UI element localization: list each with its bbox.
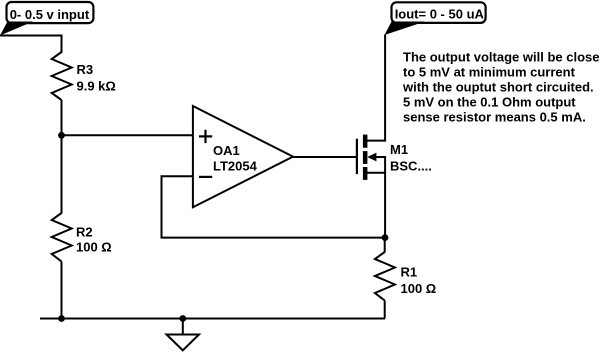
svg-text:9.9 kΩ: 9.9 kΩ xyxy=(77,78,116,93)
svg-text:0- 0.5 v input: 0- 0.5 v input xyxy=(10,7,90,22)
wire: input net horizontal xyxy=(0,35,62,37)
svg-text:BSC....: BSC.... xyxy=(390,158,432,173)
junction: node B (feedback / R1) xyxy=(382,234,389,241)
wire: op-amp inverting input to feedback xyxy=(162,176,386,237)
svg-text:5 mV on the 0.1 Ohm output: 5 mV on the 0.1 Ohm output xyxy=(403,94,576,109)
wire: node A to op-amp + input xyxy=(62,134,193,136)
wire: input to R3 top xyxy=(61,35,63,54)
transistor M1 xyxy=(357,35,385,180)
svg-text:100 Ω: 100 Ω xyxy=(76,240,112,255)
svg-text:100 Ω: 100 Ω xyxy=(401,281,437,296)
wire: node B to R1 top xyxy=(384,238,386,253)
junction: R2 / ground rail xyxy=(58,315,65,322)
wire: ground rail (bottom horizontal) xyxy=(40,318,385,320)
svg-text:M1: M1 xyxy=(390,142,408,157)
svg-text:OA1: OA1 xyxy=(213,143,240,158)
ground xyxy=(167,319,200,351)
op-amp OA1 xyxy=(193,106,293,207)
callout "0- 0.5 v input" xyxy=(0,2,93,36)
svg-text:LT2054: LT2054 xyxy=(213,159,258,174)
svg-text:sense resistor means 0.5 mA.: sense resistor means 0.5 mA. xyxy=(403,109,586,124)
junction: ground / rail xyxy=(179,315,186,322)
wire: R1 bottom to ground rail xyxy=(384,301,386,319)
svg-text:with the ouptut short circuite: with the ouptut short circuited. xyxy=(402,79,594,94)
wire: R2 bottom to ground rail xyxy=(61,262,63,319)
resistor R3 xyxy=(52,52,72,100)
svg-text:R2: R2 xyxy=(76,224,93,239)
svg-text:Iout= 0 - 50 uA: Iout= 0 - 50 uA xyxy=(395,6,485,21)
wire: R3 bottom to node A xyxy=(61,100,63,135)
wire: node A to R2 top xyxy=(61,135,63,213)
svg-text:R3: R3 xyxy=(77,62,94,77)
wire: op-amp output to M1 gate xyxy=(293,156,357,158)
junction: node A xyxy=(58,132,65,139)
resistor R1 xyxy=(375,252,395,301)
resistor R2 xyxy=(52,213,72,262)
wire: M1 source to node B xyxy=(384,173,386,238)
annotation text xyxy=(402,49,599,124)
svg-text:to 5 mV at minimum current: to 5 mV at minimum current xyxy=(403,64,576,79)
callout "Iout= 0 - 50 uA" xyxy=(385,2,486,35)
svg-text:R1: R1 xyxy=(401,264,418,279)
svg-text:The output voltage will be clo: The output voltage will be close xyxy=(403,49,599,64)
